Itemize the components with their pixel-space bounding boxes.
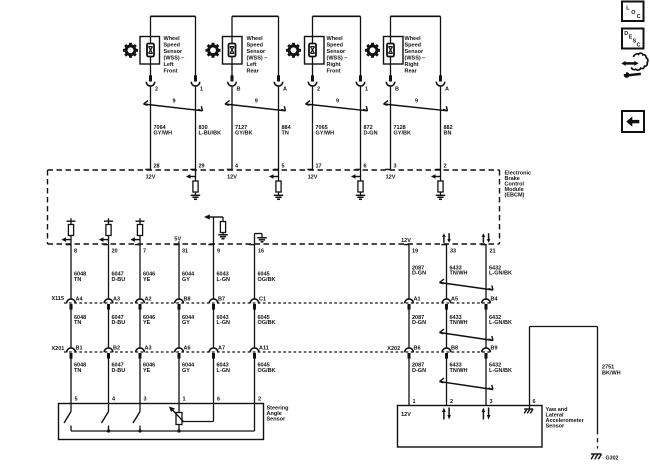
- svg-text:YE: YE: [143, 368, 151, 374]
- svg-text:B1: B1: [76, 346, 83, 352]
- wire label 6046 YE (row 1): [143, 272, 155, 283]
- wire 6048 TN: X201 to steering angle sensor pin 5: [70, 357, 72, 403]
- wire 6045 OG/BK: EBCM to X115: [254, 244, 256, 299]
- wire: resistor to ground at pin 5: [278, 192, 280, 195]
- WSS left front label: [164, 36, 185, 74]
- EBCM internal pull-up network at pin 7: [136, 218, 145, 244]
- wheel speed sensor (WSS) left front box: [140, 37, 160, 65]
- svg-text:29: 29: [199, 163, 205, 169]
- wire: EBCM internal at pin 29: [195, 170, 197, 181]
- wire label 6432 L-GN/BK (row 3): [489, 362, 512, 373]
- svg-text:Sensor: Sensor: [546, 424, 566, 430]
- WSS left rear sensing element: [229, 44, 236, 57]
- svg-text:TN/WH: TN/WH: [450, 271, 468, 277]
- connector terminal B at WSS right rear: [386, 75, 395, 86]
- svg-text:12V: 12V: [401, 412, 411, 418]
- svg-text:Front: Front: [164, 69, 178, 75]
- svg-text:A1: A1: [414, 297, 421, 303]
- connector X115 terminal A2: [136, 299, 145, 310]
- connector terminal A at WSS left rear: [274, 75, 283, 86]
- svg-text:12V: 12V: [308, 174, 318, 180]
- wire: steering sensor pin 6 to wiper: [182, 404, 214, 422]
- wire label 6046 YE (row 3): [143, 362, 155, 373]
- svg-text:20: 20: [112, 248, 118, 254]
- svg-text:B8: B8: [184, 297, 191, 303]
- EBCM pin 4 (top edge): [227, 163, 239, 169]
- wire 2087 D-GN: X115 to X202: [408, 308, 410, 348]
- svg-text:TN: TN: [74, 368, 81, 374]
- svg-text:9: 9: [217, 248, 220, 254]
- potentiometer (steering angle): [176, 404, 182, 432]
- EBCM internal sense arrow at pin 8: [61, 237, 71, 242]
- gear wheel icon (left rear WSS): [206, 43, 221, 58]
- wire label 6432 L-GN/BK (row 1): [489, 265, 512, 276]
- WSS right front sensing element: [309, 44, 316, 57]
- svg-text:2: 2: [155, 87, 158, 93]
- wire: EBCM internal at pin 5: [278, 170, 280, 181]
- svg-text:Left: Left: [164, 62, 174, 68]
- svg-text:1: 1: [413, 399, 416, 405]
- wire: WSS right rear signal lead lower: [390, 57, 392, 76]
- svg-text:1: 1: [183, 397, 186, 403]
- svg-text:Speed: Speed: [164, 43, 181, 49]
- twisted pair symbol (serial data, above yaw sensor): [440, 378, 494, 389]
- wire 6432 L-GN/BK: EBCM to X115: [485, 244, 487, 299]
- svg-text:Sensor: Sensor: [327, 49, 347, 55]
- EBCM pin 17 (top edge): [307, 163, 321, 169]
- switch contact (steering sensor, x=108.5): [102, 404, 109, 432]
- svg-text:12V: 12V: [401, 238, 411, 244]
- wire: resistor to ground at pin 6: [360, 192, 362, 195]
- connector X201 terminal A3: [136, 348, 145, 359]
- EBCM pin 5 (top edge): [273, 163, 284, 169]
- wire label 7127 GY/BK: [235, 125, 252, 136]
- svg-text:TN: TN: [282, 131, 289, 137]
- wire label 872 D-GN: [364, 125, 378, 136]
- EBCM internal pull-up network at pin 8: [67, 218, 76, 244]
- svg-text:TN/WH: TN/WH: [450, 320, 468, 326]
- EBCM internal sense arrow at pin 7: [130, 237, 140, 242]
- wire 6045 OG/BK: X115 to X201: [254, 308, 256, 348]
- gear wheel icon (right rear WSS): [365, 43, 380, 58]
- ground symbol (EBCM internal, pin 9): [218, 235, 227, 239]
- svg-text:9: 9: [255, 98, 258, 104]
- svg-text:7: 7: [143, 248, 146, 254]
- svg-text:L-GN/BK: L-GN/BK: [489, 368, 512, 374]
- wire label 6044 GY (row 1): [182, 272, 195, 283]
- svg-text:2: 2: [317, 87, 320, 93]
- LOC navigation icon: [622, 2, 644, 22]
- wire 6432 L-GN/BK: X115 to X202: [485, 308, 487, 348]
- DESC navigation icon: [622, 29, 644, 49]
- wire: dashed continuation to G302: [597, 430, 599, 449]
- EBCM pin 3 (top edge): [385, 163, 396, 169]
- connector X201 terminal A7: [209, 348, 218, 359]
- svg-text:(WSS) –: (WSS) –: [405, 56, 426, 62]
- svg-text:X201: X201: [52, 346, 65, 352]
- wire 6046 YE: X201 to steering angle sensor pin 3: [139, 357, 141, 403]
- EBCM internal ground at pin 16: [255, 234, 263, 245]
- twisted pair symbol 9 (left rear): [225, 101, 286, 111]
- wire 6045 OG/BK: X201 to steering angle sensor pin 2: [254, 357, 256, 403]
- svg-text:12V: 12V: [227, 174, 237, 180]
- svg-text:C: C: [637, 14, 641, 20]
- connector terminal B at WSS left rear: [228, 75, 237, 86]
- svg-text:TN: TN: [74, 320, 81, 326]
- Steering Angle Sensor label: [267, 405, 289, 422]
- svg-text:OG/BK: OG/BK: [258, 320, 276, 326]
- svg-text:A11: A11: [259, 346, 269, 352]
- svg-text:Sensor: Sensor: [247, 49, 267, 55]
- EBCM internal resistor at pin 2: [438, 181, 443, 192]
- svg-text:Speed: Speed: [327, 43, 344, 49]
- wire label 6045 OG/BK (row 2): [258, 315, 276, 326]
- svg-text:9: 9: [336, 98, 339, 104]
- WSS right rear sensing element: [387, 44, 394, 57]
- wire 6044 GY: X115 to X201: [178, 308, 180, 348]
- EBCM pin 28 (top edge): [145, 163, 159, 169]
- svg-text:12V: 12V: [386, 174, 396, 180]
- wire: WSS left front signal lead lower: [150, 57, 152, 76]
- wire: left rear WSS loop top: [232, 16, 279, 75]
- wire: right front WSS loop top: [313, 16, 361, 75]
- steering sensor common bus wire: [71, 430, 255, 432]
- svg-text:33: 33: [450, 248, 456, 254]
- wire label 7065 GY/WH: [316, 125, 335, 136]
- wire label 2087 D-GN (row 3): [412, 362, 426, 373]
- EBCM pin 7 (bottom edge): [135, 245, 146, 255]
- svg-text:(WSS) –: (WSS) –: [164, 56, 185, 62]
- wire: WSS right front to EBCM (left lead): [312, 87, 314, 170]
- EBCM internal sense arrow at pin 5: [269, 174, 279, 179]
- yaw sensor internal ground stub: [529, 406, 531, 409]
- svg-text:GY/WH: GY/WH: [316, 131, 335, 137]
- svg-text:L-GN: L-GN: [217, 368, 230, 374]
- svg-text:Sensor: Sensor: [267, 416, 287, 422]
- wire 6046 YE: X115 to X201: [139, 308, 141, 348]
- wire: EBCM internal at pin 6: [360, 170, 362, 181]
- gear wheel icon (right front WSS): [286, 43, 301, 58]
- wire label 6048 TN (row 2): [74, 315, 86, 326]
- svg-text:A3: A3: [113, 297, 120, 303]
- Yaw sensor label: [546, 407, 585, 430]
- wire label 2751 BK/WH: [602, 365, 621, 377]
- svg-text:Speed: Speed: [405, 43, 422, 49]
- chassis ground symbol (yaw sensor internal): [524, 409, 533, 413]
- wire 6048 TN: EBCM to X115: [70, 244, 72, 299]
- svg-text:9: 9: [172, 98, 175, 104]
- EBCM internal sense arrow at pin 2: [431, 174, 441, 179]
- EBCM pin 16 (bottom edge): [249, 245, 264, 255]
- twisted pair symbol (serial data, above X115): [440, 279, 494, 290]
- wire 6048 TN: X115 to X201: [70, 308, 72, 348]
- EBCM pin 19 (bottom edge): [404, 245, 418, 255]
- svg-text:A5: A5: [451, 297, 458, 303]
- junction node: [177, 429, 180, 432]
- svg-text:X202: X202: [387, 346, 400, 352]
- wire: WSS right front signal lead lower: [312, 57, 314, 76]
- svg-text:D-GN: D-GN: [412, 368, 426, 374]
- svg-text:OG/BK: OG/BK: [258, 277, 276, 283]
- wire: WSS left front to EBCM (left lead): [150, 87, 152, 170]
- connector terminal 2 at WSS left front: [146, 75, 155, 86]
- wire label 6047 D-BU (row 3): [112, 362, 126, 373]
- gear wheel icon (left front WSS): [123, 43, 138, 58]
- wire 6044 GY: EBCM to X115: [178, 244, 180, 299]
- EBCM pin 2 (top edge): [435, 163, 446, 169]
- svg-text:2: 2: [258, 397, 261, 403]
- svg-text:Wheel: Wheel: [164, 36, 181, 42]
- Electronic Brake Control Module (EBCM) dashed box: [48, 170, 500, 244]
- svg-text:C: C: [637, 43, 641, 49]
- EBCM internal network at pin 9: [210, 217, 226, 244]
- svg-text:Rear: Rear: [247, 69, 260, 75]
- WSS left rear label: [247, 36, 268, 74]
- svg-text:9: 9: [415, 98, 418, 104]
- yaw sensor serial data arrows pin 2: [442, 408, 451, 420]
- svg-text:Wheel: Wheel: [247, 36, 264, 42]
- wire 6046 YE: EBCM to X115: [139, 244, 141, 299]
- svg-text:(WSS) –: (WSS) –: [247, 56, 268, 62]
- svg-text:L-BU/BK: L-BU/BK: [199, 131, 222, 137]
- wire 6044 GY: X201 to steering angle sensor pin 1: [178, 357, 180, 403]
- wire: EBCM internal stub pin 31: [178, 241, 180, 244]
- svg-text:B4: B4: [491, 297, 499, 303]
- svg-text:A: A: [283, 87, 287, 93]
- svg-text:YE: YE: [143, 320, 151, 326]
- wire: WSS left front to EBCM (right lead): [195, 87, 197, 170]
- ground symbol (EBCM internal, pin 5): [274, 195, 283, 199]
- wire: EBCM internal at pin 2: [440, 170, 442, 181]
- ground symbol (EBCM internal, pin 6): [356, 195, 365, 199]
- WSS left front sensing element: [147, 44, 154, 57]
- EBCM pin 33 (bottom edge): [441, 245, 456, 255]
- svg-text:A: A: [445, 87, 449, 93]
- EBCM pin 29 (top edge): [190, 163, 204, 169]
- EBCM internal resistor at pin 5: [276, 181, 281, 192]
- wire label 6048 TN (row 1): [74, 272, 86, 283]
- svg-text:D-GN: D-GN: [364, 131, 378, 137]
- chassis ground G302: [591, 454, 602, 459]
- wire: steering sensor pin 2 to bus: [254, 404, 256, 432]
- svg-text:B7: B7: [218, 297, 225, 303]
- svg-text:8: 8: [74, 248, 77, 254]
- svg-text:B2: B2: [113, 346, 120, 352]
- connector X201 dotted line: [64, 351, 492, 353]
- svg-text:L-GN: L-GN: [217, 320, 230, 326]
- wire label 7064 GY/WH: [154, 125, 173, 136]
- connector X201 terminal B1: [67, 348, 76, 359]
- ground symbol (EBCM internal, pin 29): [191, 195, 200, 199]
- svg-text:GY/BK: GY/BK: [235, 131, 252, 137]
- wire label 6432 L-GN/BK (row 2): [489, 315, 512, 326]
- connector X115 terminal A4: [67, 299, 76, 310]
- svg-text:GY/BK: GY/BK: [394, 131, 411, 137]
- connector X115 dotted line: [64, 302, 492, 304]
- wire 6043 L-GN: X115 to X201: [213, 308, 215, 348]
- svg-text:1: 1: [365, 87, 368, 93]
- wire label 6044 GY (row 2): [182, 315, 195, 326]
- svg-text:3: 3: [144, 397, 147, 403]
- connector terminal 1 at WSS right front: [356, 75, 365, 86]
- Steering Angle Sensor box: [59, 404, 264, 440]
- wire: WSS right rear to EBCM (right lead): [440, 87, 442, 170]
- svg-text:TN: TN: [74, 277, 81, 283]
- connector X202 terminal B9: [482, 348, 491, 359]
- svg-text:Right: Right: [405, 62, 419, 68]
- EBCM internal resistor at pin 6: [358, 181, 363, 192]
- svg-text:D-GN: D-GN: [412, 271, 426, 277]
- wire 6047 D-BU: X201 to steering angle sensor pin 4: [108, 357, 110, 403]
- svg-text:C1: C1: [259, 297, 266, 303]
- connector X202 terminal B6: [405, 348, 414, 359]
- wire: WSS left rear signal lead lower: [231, 57, 233, 76]
- wheel speed sensor (WSS) right front box: [305, 37, 325, 65]
- connector X115 terminal A3: [104, 299, 113, 310]
- svg-text:X115: X115: [52, 296, 65, 302]
- EBCM pin 9 (bottom edge): [208, 245, 220, 255]
- wire label 6043 L-GN (row 2): [217, 315, 230, 326]
- wire 2087 D-GN: EBCM to X115: [408, 244, 410, 299]
- svg-text:19: 19: [412, 248, 418, 254]
- connector terminal 1 at WSS left front: [191, 75, 200, 86]
- EBCM pin 20 (bottom edge): [103, 245, 117, 255]
- wire label 6047 D-BU (row 1): [112, 272, 126, 283]
- svg-text:GY: GY: [182, 368, 190, 374]
- wire 6433 TN/WH: X115 to X202: [446, 308, 448, 348]
- wire 6433 TN/WH: EBCM to X115: [446, 244, 448, 299]
- svg-text:D-BU: D-BU: [112, 368, 126, 374]
- wire 2087 D-GN: X202 to yaw sensor pin 1: [408, 357, 410, 405]
- wire label 7128 GY/BK: [394, 125, 411, 136]
- EBCM serial data arrows at pin 21: [482, 233, 491, 243]
- svg-text:Rear: Rear: [405, 69, 418, 75]
- wire label 882 BN: [444, 125, 453, 136]
- svg-text:B8: B8: [451, 346, 458, 352]
- switch contact (steering sensor, x=140.0): [133, 404, 140, 432]
- svg-text:6: 6: [533, 399, 536, 405]
- EBCM pin 6 (top edge): [355, 163, 366, 169]
- wire: resistor to ground at pin 2: [440, 192, 442, 195]
- connector X115 terminal C1: [250, 299, 259, 310]
- WSS right rear label: [405, 36, 426, 74]
- connector X115 terminal B4: [482, 299, 491, 310]
- troubleshooting navigation icon (arrows, outline, wrench): [621, 53, 648, 78]
- svg-text:A2: A2: [145, 297, 152, 303]
- svg-text:G302: G302: [606, 455, 619, 461]
- EBCM serial data arrows at pin 33: [442, 233, 451, 243]
- ground symbol (EBCM internal, pin 16): [257, 238, 266, 242]
- svg-text:D-GN: D-GN: [412, 320, 426, 326]
- wire 6047 D-BU: EBCM to X115: [108, 244, 110, 299]
- svg-text:A3: A3: [145, 346, 152, 352]
- EBCM internal sense arrow at pin 29: [186, 174, 196, 179]
- Yaw and Lateral Accelerometer Sensor box: [398, 406, 543, 448]
- svg-text:D-BU: D-BU: [112, 277, 126, 283]
- EBCM internal pull-up network at pin 20: [104, 218, 113, 244]
- svg-text:12V: 12V: [146, 174, 156, 180]
- wire label 6047 D-BU (row 2): [112, 315, 126, 326]
- switch contact (steering sensor, x=71.0): [64, 404, 71, 432]
- wire label 6044 GY (row 3): [182, 362, 195, 373]
- twisted pair symbol 9 (right front): [306, 101, 368, 111]
- svg-text:5V: 5V: [174, 237, 181, 243]
- svg-text:5: 5: [75, 397, 78, 403]
- wire 6433 TN/WH: X202 to yaw sensor pin 2: [446, 357, 448, 405]
- connector X201 terminal B2: [104, 348, 113, 359]
- svg-text:17: 17: [316, 163, 322, 169]
- ground symbol (EBCM internal, pin 2): [436, 195, 445, 199]
- connector X201 terminal A11: [250, 348, 259, 359]
- wire 6043 L-GN: X201 to steering angle sensor pin 6: [213, 357, 215, 403]
- svg-text:A4: A4: [76, 297, 84, 303]
- svg-text:OG/BK: OG/BK: [258, 368, 276, 374]
- wire label 884 TN: [282, 125, 292, 136]
- svg-text:2: 2: [450, 399, 453, 405]
- svg-text:(EBCM): (EBCM): [505, 192, 525, 198]
- WSS right front label: [327, 36, 348, 74]
- svg-text:(WSS) –: (WSS) –: [327, 56, 348, 62]
- potentiometer wiper arrow: [169, 407, 184, 423]
- wire: WSS right front to EBCM (right lead): [360, 87, 362, 170]
- svg-text:1: 1: [200, 87, 203, 93]
- EBCM pin 8 (bottom edge): [66, 245, 77, 255]
- wire label 6433 TN/WH (row 3): [450, 362, 468, 373]
- wire: right rear WSS loop top: [391, 16, 441, 75]
- svg-text:16: 16: [258, 248, 264, 254]
- EBCM name label: [505, 170, 532, 198]
- svg-text:3: 3: [394, 163, 397, 169]
- EBCM internal sense arrow at pin 9: [204, 214, 210, 219]
- svg-text:D: D: [624, 31, 628, 37]
- svg-text:B: B: [395, 87, 399, 93]
- svg-text:Wheel: Wheel: [405, 36, 422, 42]
- connector X115 terminal A5: [442, 299, 451, 310]
- svg-text:GY: GY: [182, 277, 190, 283]
- svg-text:A7: A7: [218, 346, 225, 352]
- svg-text:GY/WH: GY/WH: [154, 131, 173, 137]
- svg-text:Left: Left: [247, 62, 257, 68]
- wire label 6048 TN (row 3): [74, 362, 86, 373]
- svg-text:L-GN: L-GN: [217, 277, 230, 283]
- wire label 6433 TN/WH (row 1): [450, 265, 468, 276]
- wire label 6043 L-GN (row 1): [217, 272, 230, 283]
- twisted pair symbol (serial data, above X202): [440, 329, 494, 340]
- svg-text:2: 2: [444, 163, 447, 169]
- svg-text:6: 6: [364, 163, 367, 169]
- wire label 6045 OG/BK (row 3): [258, 362, 276, 373]
- svg-text:Right: Right: [327, 62, 341, 68]
- EBCM internal sense arrow at pin 6: [351, 174, 361, 179]
- wire label 830 L-BU/BK: [199, 125, 222, 136]
- svg-text:D-BU: D-BU: [112, 320, 126, 326]
- wire label 6043 L-GN (row 3): [217, 362, 230, 373]
- wire label 2087 D-GN (row 1): [412, 265, 426, 276]
- svg-text:6: 6: [217, 397, 220, 403]
- wheel speed sensor (WSS) right rear box: [384, 37, 404, 65]
- svg-text:28: 28: [154, 163, 160, 169]
- connector X115 terminal B8: [175, 299, 184, 310]
- wire 2751 BK/WH: yaw sensor pin 6 to G302: [530, 327, 598, 431]
- connector terminal A at WSS right rear: [436, 75, 445, 86]
- wire: resistor to ground at pin 29: [195, 192, 197, 195]
- connector terminal 2 at WSS right front: [308, 75, 317, 86]
- EBCM pin 21 (bottom edge): [481, 245, 496, 255]
- twisted pair symbol 9 (left front): [144, 101, 203, 111]
- svg-text:BN: BN: [444, 131, 452, 137]
- wire label 2087 D-GN (row 2): [412, 315, 426, 326]
- wheel speed sensor (WSS) left rear box: [223, 37, 243, 65]
